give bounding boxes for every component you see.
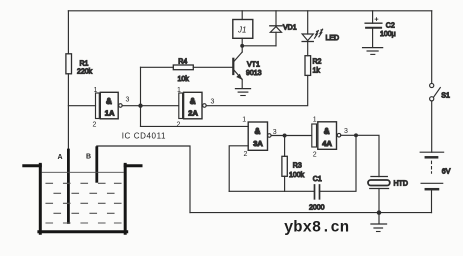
svg-text:&: &	[190, 97, 196, 106]
svg-text:+: +	[374, 15, 379, 24]
svg-text:C2: C2	[386, 23, 395, 30]
water tank	[24, 164, 141, 233]
svg-text:9013: 9013	[246, 70, 262, 77]
svg-text:3: 3	[126, 97, 130, 104]
svg-text:R4: R4	[178, 59, 187, 66]
node J1 / VD1 / collector	[241, 44, 244, 47]
svg-text:R1: R1	[80, 61, 89, 68]
wire R3 bottom to oscillator node line	[284, 176, 286, 191]
svg-text:1A: 1A	[105, 109, 115, 118]
battery 6V	[420, 152, 450, 189]
svg-text:3: 3	[211, 99, 215, 106]
svg-text:3: 3	[344, 128, 348, 135]
wire junction to R4 left	[141, 66, 174, 68]
svg-text:R2: R2	[313, 59, 322, 66]
wire vertical junction up to R4 level and down to 3A pin1 line	[140, 67, 142, 126]
svg-text:C1: C1	[313, 176, 322, 183]
svg-text:&: &	[106, 97, 112, 106]
wire top rail right corner down to switch	[431, 11, 433, 84]
wire node A to gate 1A input	[68, 105, 95, 107]
svg-text:2A: 2A	[188, 109, 198, 118]
gate 4A output bubble and pin 3	[337, 128, 348, 137]
wire C1 right to 4A output feedback	[320, 135, 357, 191]
wire left branch from rail to R1	[67, 11, 69, 54]
svg-text:2000: 2000	[309, 205, 325, 212]
svg-text:2: 2	[313, 152, 317, 159]
svg-text:6V: 6V	[442, 169, 451, 176]
gate 2A (NAND, inputs tied)	[177, 87, 203, 129]
svg-text:4A: 4A	[322, 139, 332, 148]
svg-text:VT1: VT1	[247, 62, 260, 69]
wire 3A pin2 input from oscillator node	[229, 146, 248, 192]
svg-text:&: &	[324, 127, 330, 136]
svg-text:A: A	[58, 154, 63, 161]
svg-text:LED: LED	[326, 35, 340, 42]
buzzer HTD	[368, 177, 408, 213]
node junction 1A-out / R4 / 3A feed	[139, 104, 142, 107]
wire 1A output to 2A input	[122, 105, 178, 107]
capacitor C1	[309, 176, 325, 212]
svg-text:&: &	[255, 127, 261, 136]
wire electrode B riser and run to bottom rail	[97, 146, 190, 213]
svg-text:1: 1	[94, 87, 98, 94]
svg-text:J1: J1	[237, 26, 246, 35]
resistor R2	[305, 56, 322, 76]
wire oscillator node horizontal	[229, 190, 314, 192]
svg-text:220k: 220k	[77, 69, 93, 76]
LED indicator	[302, 11, 339, 56]
water surface line	[42, 171, 124, 173]
relay coil J1	[233, 11, 253, 52]
wire battery bottom to ground rail	[431, 190, 433, 212]
electrode A	[58, 150, 69, 223]
wire 4A output to buzzer	[341, 135, 379, 176]
svg-text:1k: 1k	[313, 68, 321, 75]
wire junction down to gate 3A pin 1	[141, 125, 249, 127]
svg-text:R3: R3	[293, 163, 302, 170]
resistor R3	[282, 156, 305, 179]
ground on bottom rail	[371, 213, 387, 232]
ground under C2	[363, 48, 383, 55]
gate 3A output bubble and pin 3	[268, 129, 277, 137]
node buzzer / ground rail junction	[377, 211, 380, 214]
svg-text:1: 1	[242, 117, 246, 124]
node C1 feedback junction on 4A output	[355, 134, 358, 137]
gate 4A (NAND, inputs tied)	[312, 117, 337, 159]
gate 1A (NAND, inputs tied)	[93, 87, 119, 129]
gate 2A output bubble and pin 3	[203, 99, 215, 108]
ground under VT1 emitter	[236, 89, 251, 96]
svg-text:S1: S1	[441, 93, 450, 100]
resistor R4	[173, 59, 193, 84]
svg-text:HTD: HTD	[394, 181, 408, 188]
label IC CD4011	[122, 132, 166, 141]
svg-text:2: 2	[244, 151, 248, 158]
wire 3A output to 4A input	[271, 135, 311, 137]
wire R4 right to VT1 base	[193, 66, 232, 68]
transistor VT1 9013	[233, 52, 261, 88]
svg-text:3A: 3A	[253, 139, 263, 148]
svg-text:1: 1	[177, 87, 181, 94]
water dashes	[46, 183, 121, 223]
electrode B	[86, 148, 97, 182]
diode VD1 (flyback)	[242, 11, 297, 46]
wire switch to battery	[431, 101, 433, 152]
gate 3A (NAND, separate inputs)	[242, 117, 267, 158]
gate 1A output bubble and pin 3	[119, 97, 130, 108]
wire junction down to R3	[284, 136, 286, 157]
wire bottom ground rail	[190, 212, 432, 214]
resistor R1	[66, 54, 93, 76]
capacitor C2 electrolytic	[365, 11, 396, 48]
svg-text:1: 1	[313, 117, 317, 124]
svg-text:100μ: 100μ	[380, 31, 396, 38]
wire top supply rail	[68, 10, 431, 12]
wire R1 bottom to electrode A	[67, 74, 69, 150]
svg-text:IC CD4011: IC CD4011	[122, 132, 166, 141]
svg-text:10k: 10k	[178, 76, 190, 83]
svg-text:ybx8.cn: ybx8.cn	[284, 219, 349, 237]
svg-text:B: B	[86, 154, 91, 161]
node R3 top junction	[283, 134, 286, 137]
wire 2A output to R2 bottom	[206, 75, 308, 105]
svg-text:2: 2	[93, 122, 97, 129]
svg-text:2: 2	[177, 122, 181, 129]
switch S1	[430, 83, 450, 101]
svg-text:100k: 100k	[289, 172, 305, 179]
svg-text:VD1: VD1	[283, 25, 297, 32]
watermark ybx8.cn	[284, 219, 349, 237]
